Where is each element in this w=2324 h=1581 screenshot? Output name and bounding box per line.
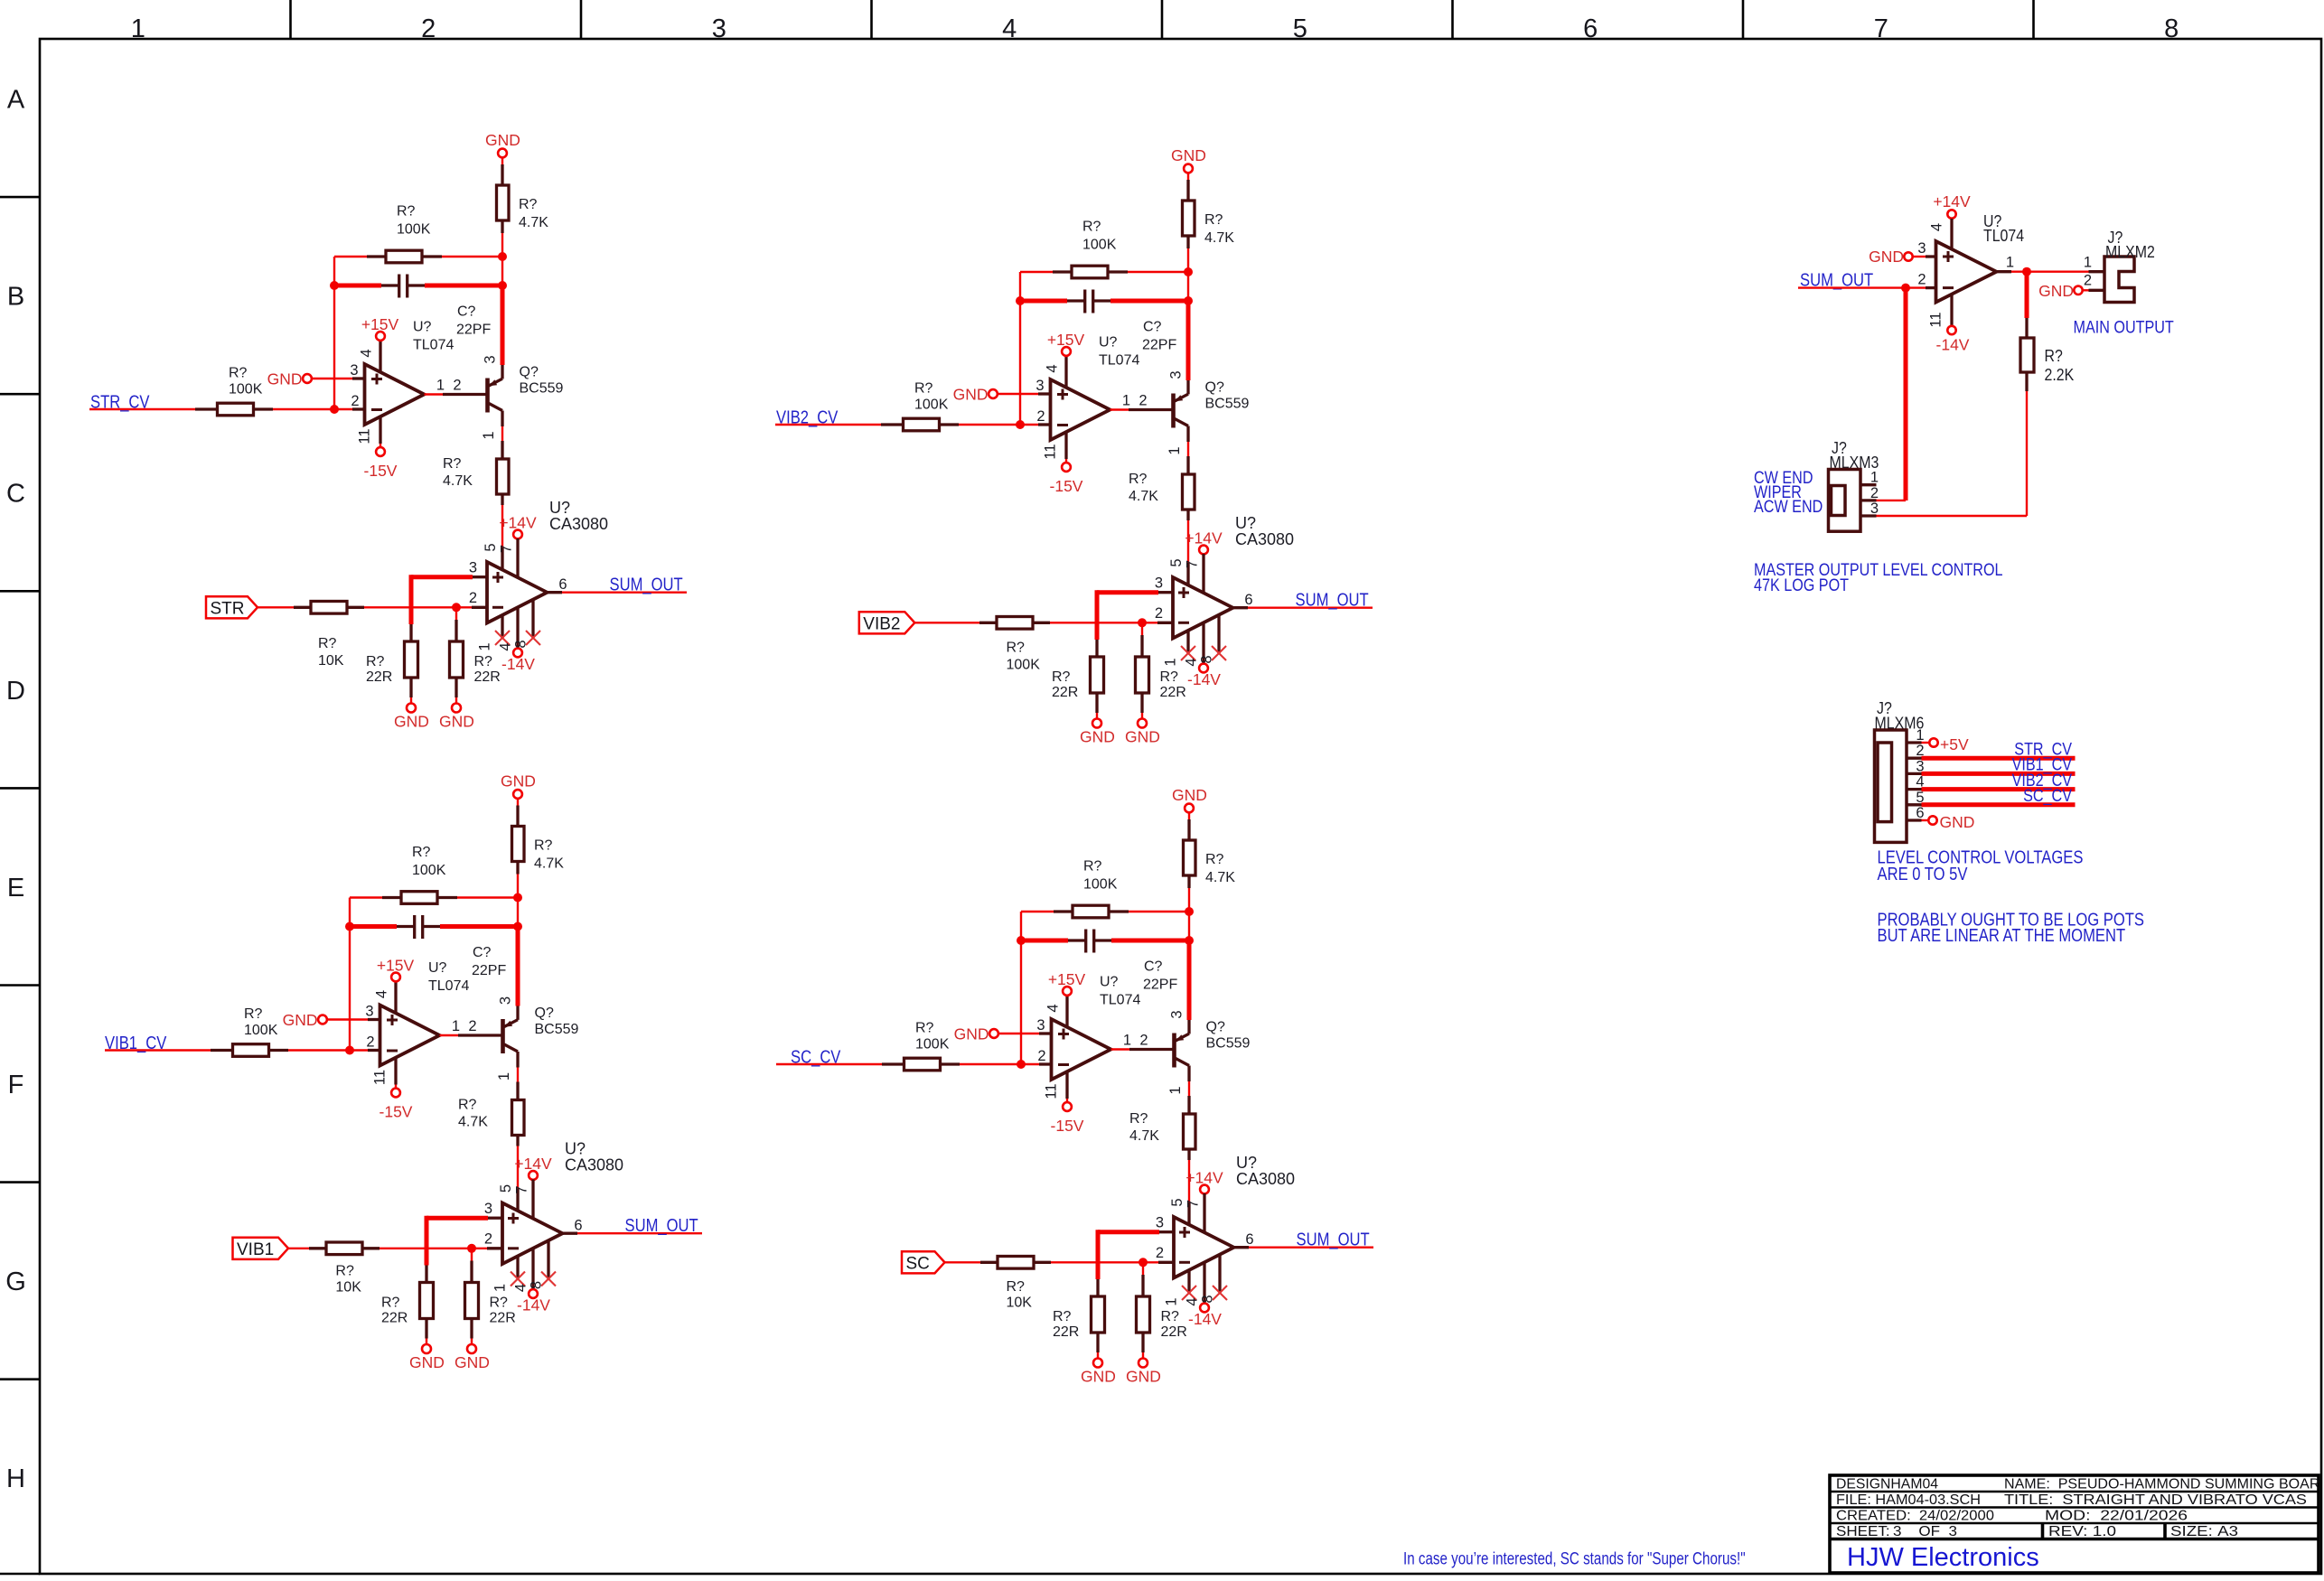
svg-text:NAME: PSEUDO-HAMMOND SUMMING: NAME: PSEUDO-HAMMOND SUMMING BOARD [2004, 1477, 2324, 1492]
svg-text:1: 1 [131, 14, 145, 43]
svg-text:R?: R? [318, 636, 337, 651]
svg-text:VIB2: VIB2 [863, 614, 900, 633]
svg-text:2: 2 [2084, 273, 2092, 289]
svg-text:CREATED: 24/02/2000: CREATED: 24/02/2000 [1836, 1509, 1994, 1524]
svg-text:D: D [6, 677, 25, 706]
svg-text:3: 3 [712, 14, 726, 43]
svg-text:H: H [6, 1464, 25, 1493]
svg-text:10K: 10K [1007, 1296, 1033, 1311]
svg-text:BUT ARE LINEAR AT THE MOMENT: BUT ARE LINEAR AT THE MOMENT [1878, 926, 2126, 946]
svg-text:SC_CV: SC_CV [791, 1048, 841, 1068]
svg-text:G: G [5, 1268, 26, 1296]
svg-text:+5V: +5V [1940, 735, 1969, 753]
svg-text:STR: STR [211, 599, 245, 618]
svg-text:1: 1 [2084, 255, 2092, 271]
svg-text:47K LOG POT: 47K LOG POT [1754, 576, 1849, 595]
svg-text:STR_CV: STR_CV [90, 393, 150, 413]
svg-text:2.2K: 2.2K [2045, 365, 2075, 384]
svg-text:-14V: -14V [1936, 336, 1970, 354]
svg-text:SHEET: 3 OF 3: SHEET: 3 OF 3 [1836, 1524, 1957, 1539]
svg-text:HJW Electronics: HJW Electronics [1847, 1543, 2039, 1572]
svg-text:FILE: HAM04-03.SCH: FILE: HAM04-03.SCH [1836, 1492, 1981, 1508]
svg-text:4: 4 [1002, 14, 1017, 43]
svg-text:2: 2 [421, 14, 436, 43]
svg-text:TITLE: STRAIGHT AND VIBRATO V: TITLE: STRAIGHT AND VIBRATO VCAS [2004, 1492, 2307, 1508]
svg-text:R?: R? [335, 1264, 354, 1279]
svg-text:10K: 10K [335, 1280, 361, 1296]
svg-text:B: B [7, 283, 24, 312]
svg-text:6: 6 [1916, 805, 1924, 821]
svg-text:8: 8 [2164, 14, 2179, 43]
svg-text:C: C [6, 480, 25, 509]
svg-text:10K: 10K [318, 653, 344, 669]
svg-text:+14V: +14V [1933, 192, 1971, 210]
svg-text:7: 7 [1874, 14, 1888, 43]
svg-text:5: 5 [1293, 14, 1307, 43]
svg-text:TL074: TL074 [1983, 226, 2024, 245]
svg-text:2: 2 [1917, 272, 1926, 288]
svg-text:ACW END: ACW END [1754, 498, 1823, 517]
svg-text:GND: GND [2038, 282, 2074, 300]
svg-text:6: 6 [1583, 14, 1598, 43]
svg-text:In case you’re interested, SC: In case you’re interested, SC stands for… [1403, 1550, 1746, 1569]
svg-text:A: A [7, 86, 25, 115]
svg-text:SC: SC [906, 1254, 930, 1273]
svg-text:F: F [8, 1071, 24, 1099]
svg-text:MLXM2: MLXM2 [2105, 242, 2155, 261]
svg-text:REV: 1.0: REV: 1.0 [2048, 1524, 2116, 1539]
svg-text:VIB1_CV: VIB1_CV [105, 1034, 167, 1053]
svg-text:100K: 100K [1007, 658, 1041, 673]
svg-text:MAIN OUTPUT: MAIN OUTPUT [2074, 319, 2175, 338]
svg-text:DESIGNHAM04: DESIGNHAM04 [1836, 1477, 1938, 1492]
svg-text:VIB1: VIB1 [237, 1240, 274, 1259]
svg-text:1: 1 [2006, 255, 2014, 271]
svg-text:R?: R? [1007, 641, 1026, 656]
svg-text:GND: GND [1940, 813, 1975, 831]
svg-text:R?: R? [2045, 346, 2063, 365]
svg-text:3: 3 [1917, 240, 1926, 257]
svg-text:VIB2_CV: VIB2_CV [776, 408, 839, 428]
svg-text:11: 11 [1928, 312, 1944, 327]
svg-text:R?: R? [1007, 1279, 1026, 1295]
svg-text:GND: GND [1869, 248, 1904, 266]
svg-text:2: 2 [1870, 485, 1879, 501]
svg-text:1: 1 [1916, 727, 1924, 744]
svg-text:MOD: 22/01/2026: MOD: 22/01/2026 [2045, 1509, 2188, 1524]
svg-text:SIZE: A3: SIZE: A3 [2170, 1524, 2238, 1539]
svg-text:ARE 0 TO 5V: ARE 0 TO 5V [1878, 865, 1969, 884]
svg-text:1: 1 [1870, 470, 1879, 486]
svg-text:E: E [7, 874, 24, 903]
svg-text:4: 4 [1929, 223, 1945, 231]
svg-text:SC_CV: SC_CV [2023, 787, 2072, 806]
svg-text:3: 3 [1870, 500, 1879, 517]
